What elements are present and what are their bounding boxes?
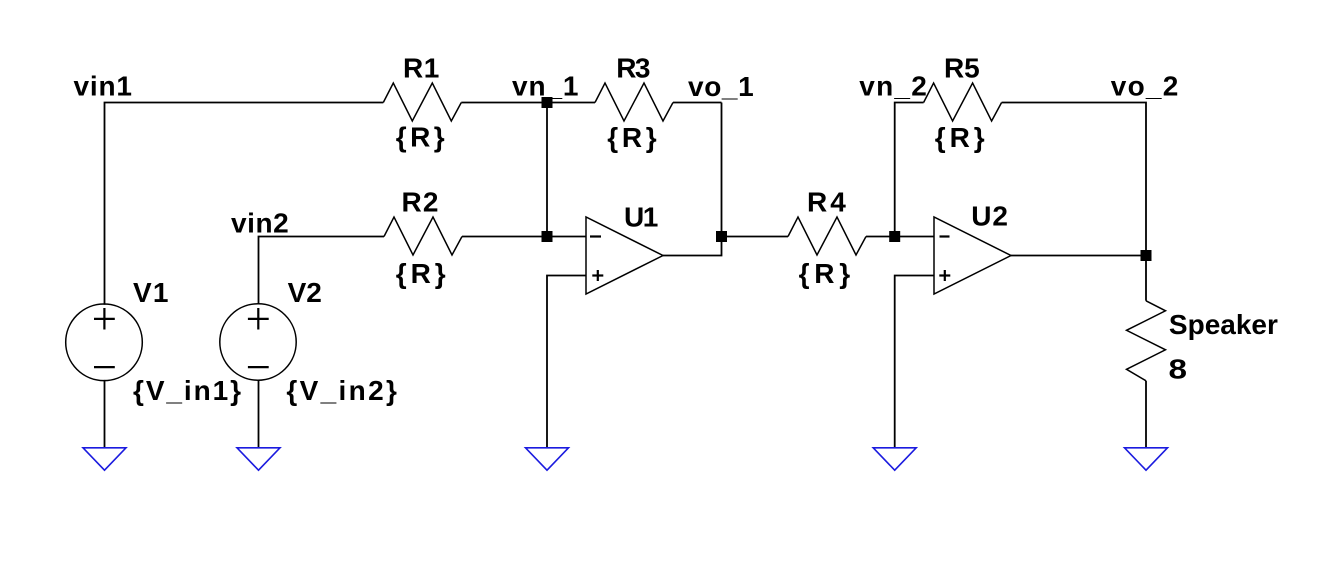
junction U1 inverting input: [542, 231, 553, 242]
wire: [895, 276, 934, 448]
voltage source V1: [66, 304, 143, 381]
svg-text:{R}: {R}: [935, 122, 985, 153]
resistor R5: [924, 83, 1002, 121]
wire: [462, 236, 586, 238]
junction U2 inverting input: [889, 231, 900, 242]
voltage source V2: [220, 304, 296, 380]
wire: [547, 102, 595, 104]
svg-text:R4: R4: [807, 187, 846, 218]
svg-text:{V_in2}: {V_in2}: [286, 375, 397, 406]
wire: [866, 236, 934, 238]
svg-text:U2: U2: [971, 201, 1008, 232]
op-amp U2: [934, 217, 1011, 294]
resistor R2: [384, 217, 462, 255]
wire: [722, 236, 789, 238]
wire: [105, 103, 384, 305]
junction vo_2: [1141, 250, 1152, 261]
wire: [1145, 381, 1147, 448]
junction vn_1: [542, 97, 553, 108]
svg-text:{V_in1}: {V_in1}: [133, 375, 241, 406]
wire: [258, 380, 260, 448]
svg-text:Speaker: Speaker: [1169, 309, 1278, 340]
ground: [237, 448, 280, 470]
svg-text:U1: U1: [624, 202, 658, 233]
wire: [1011, 255, 1146, 257]
resistor R3: [595, 83, 673, 121]
svg-text:{R}: {R}: [607, 122, 657, 153]
wire: [895, 103, 924, 237]
wire: [547, 276, 586, 448]
wire: [673, 102, 722, 104]
svg-text:vn_2: vn_2: [859, 71, 927, 102]
wire: [259, 237, 385, 305]
svg-text:vo_1: vo_1: [688, 71, 754, 102]
wire: [546, 103, 548, 237]
svg-text:vo_2: vo_2: [1111, 71, 1179, 102]
svg-text:R5: R5: [944, 53, 980, 84]
svg-text:R1: R1: [403, 53, 439, 84]
svg-text:R3: R3: [616, 53, 650, 84]
ground: [873, 448, 916, 470]
wire: [1002, 103, 1146, 301]
svg-text:8: 8: [1169, 354, 1188, 385]
svg-text:V1: V1: [133, 277, 168, 308]
svg-text:R2: R2: [402, 187, 439, 218]
wire: [104, 380, 106, 448]
ground: [83, 448, 126, 470]
svg-text:{R}: {R}: [799, 258, 851, 289]
ground: [526, 448, 569, 470]
ground: [1125, 448, 1168, 470]
wire: [461, 102, 547, 104]
resistor R4: [788, 217, 866, 255]
svg-text:vin2: vin2: [231, 207, 289, 238]
resistor Speaker: [1127, 301, 1166, 381]
svg-text:V2: V2: [288, 277, 322, 308]
svg-text:{R}: {R}: [396, 122, 445, 153]
resistor R1: [383, 83, 461, 121]
junction vo_1: [716, 231, 727, 242]
svg-text:{R}: {R}: [396, 258, 446, 289]
svg-text:vn_1: vn_1: [512, 71, 579, 102]
svg-text:vin1: vin1: [74, 71, 133, 102]
op-amp U1: [586, 217, 663, 294]
wire: [663, 103, 722, 256]
